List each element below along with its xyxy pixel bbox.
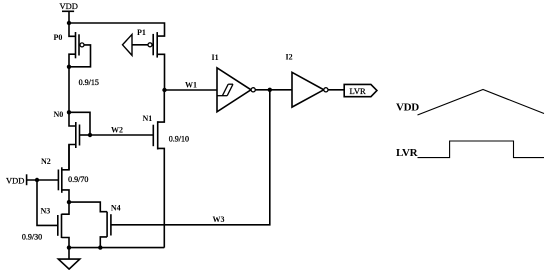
wire N0 diode connection <box>69 112 90 135</box>
op-amp I1 schmitt inverter <box>212 53 256 112</box>
svg-text:P1: P1 <box>137 28 146 37</box>
wire ground rail <box>69 247 164 249</box>
node N2/N3 junction <box>67 200 71 204</box>
wire I1 output to I2 input <box>255 89 292 91</box>
svg-text:N2: N2 <box>41 157 51 166</box>
wire W3 feedback <box>111 90 270 225</box>
transistor P1 <box>132 28 165 90</box>
node ground rail N4 junction <box>98 245 102 249</box>
svg-text:0.9/30: 0.9/30 <box>22 233 42 242</box>
svg-text:N3: N3 <box>41 207 51 216</box>
svg-text:W1: W1 <box>185 81 197 90</box>
wire W2 <box>90 134 153 136</box>
power port VDD (left) <box>6 174 58 185</box>
svg-text:N0: N0 <box>54 110 64 119</box>
svg-text:0.9/10: 0.9/10 <box>169 135 189 144</box>
waveform LVR <box>396 141 544 159</box>
svg-text:I2: I2 <box>286 53 293 62</box>
node W2 junction <box>88 133 92 137</box>
svg-text:0.9/15: 0.9/15 <box>79 78 99 87</box>
wire VDD left to N3 gate <box>37 180 58 225</box>
svg-text:LVR: LVR <box>350 86 367 96</box>
svg-text:P0: P0 <box>54 33 63 42</box>
power port VDD (top) <box>60 1 78 23</box>
svg-text:W3: W3 <box>213 215 225 224</box>
transistor N4 <box>100 204 120 248</box>
svg-text:LVR: LVR <box>396 147 419 159</box>
output port LVR <box>344 84 377 96</box>
svg-text:I1: I1 <box>212 53 219 62</box>
node VDD left junction <box>35 178 39 182</box>
ground <box>58 248 80 270</box>
wire W1 <box>165 89 218 91</box>
svg-text:W2: W2 <box>111 126 123 135</box>
svg-text:N4: N4 <box>111 204 121 213</box>
node P0 drain/gate junction <box>67 65 71 69</box>
node ground rail left junction <box>67 245 71 249</box>
node VDD top junction <box>67 21 71 25</box>
node N0 drain junction <box>67 110 71 114</box>
transistor N0 <box>54 110 91 170</box>
transistor N1 <box>143 90 165 248</box>
wire P0 drain to N0 drain <box>68 67 70 113</box>
transistor N2 <box>41 145 69 203</box>
transistor P0 <box>54 23 91 67</box>
svg-text:VDD: VDD <box>6 176 24 186</box>
svg-text:N1: N1 <box>143 114 153 123</box>
node I1 output junction <box>268 88 272 92</box>
transistor N3 <box>41 202 70 248</box>
svg-text:0.9/70: 0.9/70 <box>68 175 88 184</box>
svg-text:VDD: VDD <box>396 102 419 114</box>
node W1 junction <box>162 88 166 92</box>
wire node to N4 drain <box>69 202 107 212</box>
ground arrow at P1 gate <box>123 34 133 55</box>
waveform VDD <box>396 90 544 116</box>
svg-text:VDD: VDD <box>60 1 78 11</box>
op-amp I2 inverter <box>286 53 329 108</box>
wire VDD rail to P1 source <box>69 23 165 36</box>
wire I2 output <box>328 89 344 91</box>
